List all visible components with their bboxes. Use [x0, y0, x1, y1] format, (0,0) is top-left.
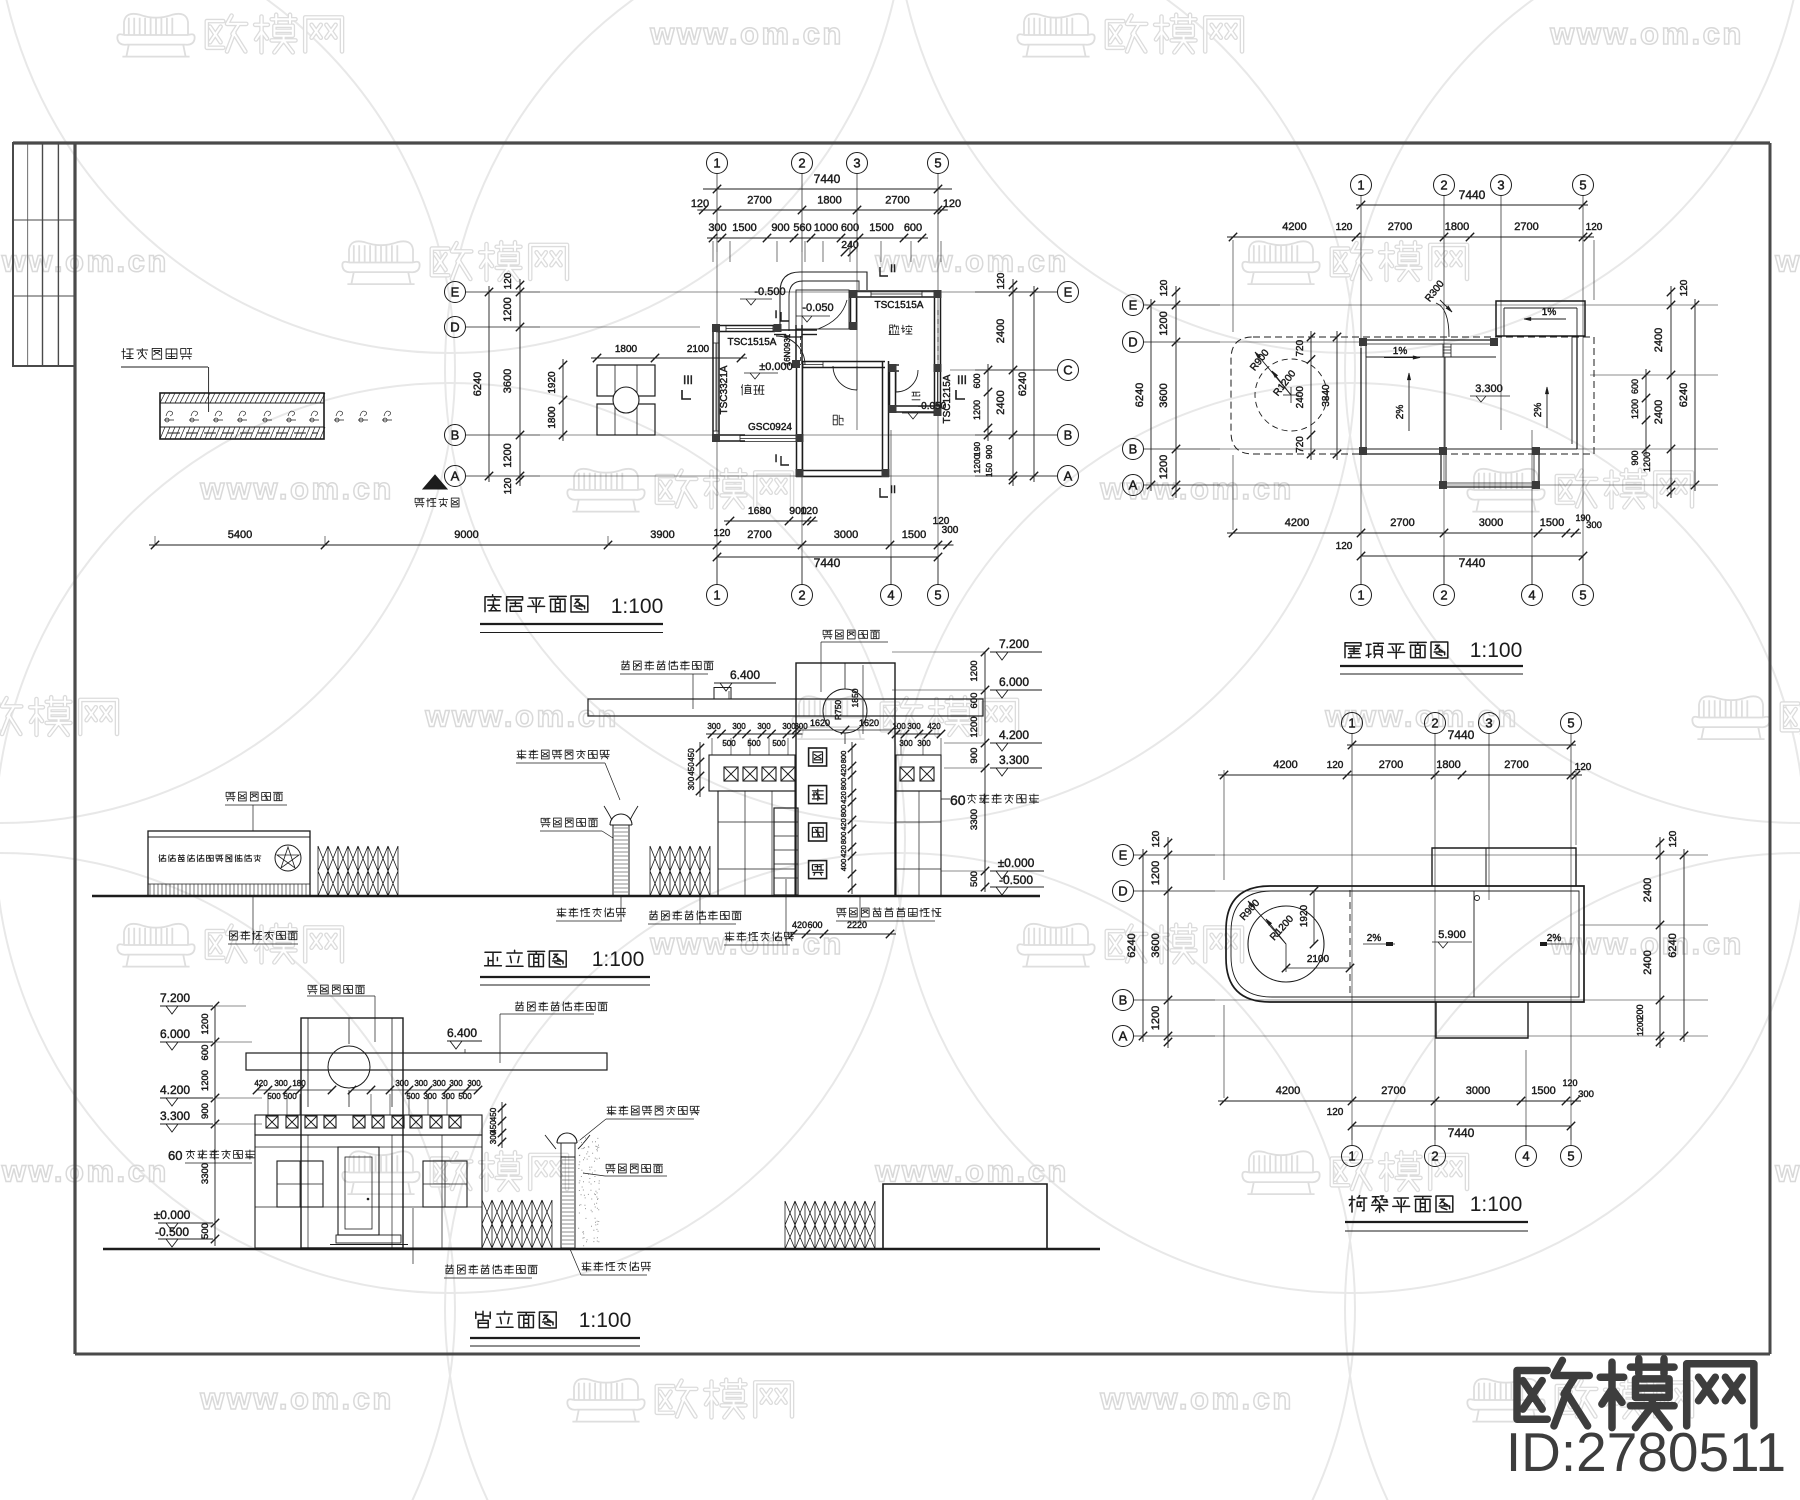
tower top label — [823, 630, 880, 639]
svg-text:1200: 1200 — [1150, 861, 1162, 885]
rear right building block — [883, 1184, 1047, 1249]
roof canopy band — [1366, 339, 1496, 341]
svg-text:1500: 1500 — [869, 222, 893, 234]
svg-text:120: 120 — [1327, 1107, 1344, 1118]
svg-text:500: 500 — [406, 1092, 420, 1101]
floor plan bottom dims — [724, 520, 818, 522]
frame plan left bubbles — [1113, 845, 1134, 866]
svg-text:E: E — [1129, 298, 1138, 313]
svg-text:100: 100 — [892, 722, 906, 731]
svg-text:1800: 1800 — [1445, 221, 1469, 233]
svg-text:300: 300 — [794, 722, 808, 731]
svg-text:400: 400 — [839, 859, 848, 872]
svg-text:II: II — [890, 263, 896, 275]
svg-text:www.om.cn: www.om.cn — [199, 1381, 394, 1416]
svg-text:5: 5 — [1579, 178, 1586, 193]
svg-text:2700: 2700 — [1390, 517, 1414, 529]
svg-text:800: 800 — [839, 778, 848, 791]
svg-text:GSC0924: GSC0924 — [748, 422, 792, 433]
svg-text:1200: 1200 — [1150, 1006, 1162, 1030]
canopy slab front — [588, 699, 983, 716]
svg-text:2220: 2220 — [847, 920, 867, 930]
right dim stack front — [984, 652, 986, 892]
svg-text:120: 120 — [1336, 222, 1353, 233]
frame plan top extension — [1432, 848, 1576, 886]
svg-text:300: 300 — [757, 722, 771, 731]
duty top-right wall w/ notch — [774, 329, 817, 331]
svg-text:±0.000: ±0.000 — [759, 361, 793, 373]
svg-text:4: 4 — [887, 588, 894, 603]
svg-text:1200: 1200 — [502, 297, 514, 321]
svg-text:900: 900 — [771, 222, 789, 234]
svg-text:3.300: 3.300 — [999, 753, 1029, 767]
svg-text:450: 450 — [687, 748, 696, 762]
svg-text:D: D — [450, 320, 459, 335]
svg-text:6.400: 6.400 — [447, 1026, 477, 1040]
svg-text:500: 500 — [722, 739, 736, 748]
svg-text:1200: 1200 — [969, 716, 980, 737]
svg-text:7440: 7440 — [1448, 1126, 1475, 1140]
rear canopy slab — [246, 1053, 607, 1070]
svg-text:5: 5 — [1579, 588, 1586, 603]
svg-text:1800: 1800 — [615, 344, 638, 355]
svg-text:www.om.cn: www.om.cn — [0, 244, 169, 279]
svg-text:500: 500 — [200, 1223, 211, 1239]
interior door arcs — [833, 366, 857, 390]
svg-text:1500: 1500 — [732, 222, 756, 234]
svg-text:1800: 1800 — [817, 195, 841, 207]
svg-text:9000: 9000 — [454, 529, 478, 541]
svg-text:420: 420 — [792, 920, 807, 930]
svg-text:www.om.cn: www.om.cn — [0, 1154, 169, 1189]
roof right vdims — [1670, 286, 1672, 498]
svg-text:D: D — [1118, 884, 1127, 899]
floor plan bottom bubbles — [707, 585, 728, 606]
svg-text:1200: 1200 — [1158, 311, 1170, 335]
svg-text:www.om.cn: www.om.cn — [199, 471, 394, 506]
svg-text:±0.000: ±0.000 — [154, 1208, 191, 1222]
sign wall labels — [226, 792, 283, 801]
window band right front — [896, 755, 941, 791]
svg-text:2700: 2700 — [885, 195, 909, 207]
svg-text:1: 1 — [1348, 1149, 1355, 1164]
svg-text:3.300: 3.300 — [160, 1109, 190, 1123]
svg-text:2100: 2100 — [687, 344, 710, 355]
walls below left — [718, 791, 795, 896]
bottom dim chain front — [787, 933, 896, 935]
floor plan right vdims — [1012, 279, 1014, 486]
svg-text:-0.500: -0.500 — [155, 1225, 189, 1239]
svg-text:1200: 1200 — [1158, 455, 1170, 479]
svg-text:2700: 2700 — [1379, 759, 1403, 771]
svg-text:A: A — [1064, 469, 1073, 484]
svg-text:1920: 1920 — [547, 371, 558, 394]
svg-text:120: 120 — [1336, 541, 1353, 552]
svg-text:300: 300 — [899, 739, 913, 748]
svg-text:1%: 1% — [1542, 307, 1557, 318]
svg-text:120: 120 — [1159, 279, 1170, 296]
title front elevation — [485, 950, 567, 967]
roof bottom extension — [1440, 454, 1442, 487]
svg-text:2%: 2% — [1367, 933, 1382, 944]
svg-text:150: 150 — [984, 463, 994, 477]
svg-text:1200: 1200 — [969, 660, 980, 681]
frame bottom dims — [1218, 1100, 1581, 1102]
big logo 欧模网 — [1517, 1359, 1754, 1428]
svg-text:1: 1 — [1348, 716, 1355, 731]
svg-text:120: 120 — [1562, 1078, 1577, 1088]
rear pole labels — [607, 1106, 699, 1115]
pole labels — [517, 750, 609, 759]
accordion gate mid — [650, 846, 710, 896]
svg-text:1200: 1200 — [1630, 399, 1640, 419]
svg-text:120: 120 — [1151, 830, 1162, 847]
svg-text:120: 120 — [1575, 762, 1592, 773]
svg-text:6240: 6240 — [1134, 383, 1146, 407]
svg-text:3.300: 3.300 — [1475, 383, 1503, 395]
svg-text:300: 300 — [432, 1079, 446, 1088]
svg-text:www.om.cn: www.om.cn — [1774, 244, 1800, 279]
svg-text:3: 3 — [853, 156, 860, 171]
svg-text:III: III — [683, 373, 693, 387]
svg-text:900: 900 — [1630, 450, 1640, 465]
frame right vdims — [1659, 837, 1661, 1048]
ground floor plan: grid bubbles top — [707, 153, 728, 174]
title rear elevation — [476, 1311, 556, 1328]
floor plan right grid bubbles E C B A — [1058, 282, 1079, 303]
svg-text:2400: 2400 — [1642, 950, 1654, 974]
duty room windows — [712, 343, 714, 431]
svg-text:200: 200 — [1635, 1004, 1645, 1019]
svg-text:2700: 2700 — [1514, 221, 1538, 233]
title table top-left — [13, 143, 75, 366]
svg-text:7.200: 7.200 — [999, 637, 1029, 651]
frame plan bottom extension — [1436, 1002, 1528, 1038]
svg-text:2400: 2400 — [995, 390, 1007, 414]
bedroom walls — [802, 361, 885, 363]
svg-text:7440: 7440 — [1459, 556, 1486, 570]
svg-text:2700: 2700 — [1381, 1085, 1405, 1097]
svg-text:2400: 2400 — [995, 319, 1007, 343]
svg-text:I: I — [774, 309, 777, 321]
svg-text:2400: 2400 — [1642, 878, 1654, 902]
svg-text:E: E — [1064, 285, 1073, 300]
rear left dim stack — [214, 1006, 216, 1246]
extension lines floor plan bottom site dim — [154, 536, 156, 545]
entrance canopy outer — [780, 272, 867, 331]
frame plan body rounded — [1226, 886, 1584, 1002]
svg-text:1:100: 1:100 — [592, 948, 645, 971]
title: ground floor plan — [485, 595, 588, 613]
svg-text:2100: 2100 — [1307, 954, 1330, 965]
svg-text:5: 5 — [934, 588, 941, 603]
svg-text:3000: 3000 — [1466, 1085, 1490, 1097]
svg-text:500: 500 — [267, 1092, 281, 1101]
svg-text:A: A — [1129, 478, 1138, 493]
svg-text:2700: 2700 — [1388, 221, 1412, 233]
roof columns — [1359, 338, 1367, 346]
svg-text:1: 1 — [713, 156, 720, 171]
accordion gate left — [318, 846, 398, 896]
svg-text:420: 420 — [839, 818, 848, 831]
svg-text:TSC3321A: TSC3321A — [719, 365, 730, 414]
svg-text:4.200: 4.200 — [999, 728, 1029, 742]
canopy label — [621, 661, 713, 670]
svg-text:120: 120 — [503, 272, 514, 289]
svg-text:1:100: 1:100 — [611, 595, 664, 618]
svg-text:1680: 1680 — [748, 505, 772, 517]
svg-text:3840: 3840 — [1321, 384, 1332, 407]
svg-text:2400: 2400 — [1295, 386, 1306, 409]
svg-text:D: D — [1128, 335, 1137, 350]
svg-text:1800: 1800 — [1436, 759, 1460, 771]
car entrance — [423, 475, 447, 489]
svg-text:2: 2 — [798, 156, 805, 171]
svg-text:5.900: 5.900 — [1438, 929, 1466, 941]
svg-text:1000: 1000 — [814, 222, 838, 234]
svg-text:300: 300 — [1586, 520, 1602, 531]
svg-text:B: B — [1064, 428, 1073, 443]
rear light pole — [557, 1133, 577, 1143]
svg-text:7440: 7440 — [814, 556, 841, 570]
roof plan extensions — [1232, 240, 1234, 332]
svg-text:2400: 2400 — [1653, 328, 1665, 352]
roof bottom bubbles — [1351, 585, 1372, 606]
frame plan circle — [1248, 906, 1324, 982]
svg-text:2700: 2700 — [747, 195, 771, 207]
floor plan vertical grid lines — [716, 252, 718, 585]
svg-text:3: 3 — [1485, 716, 1492, 731]
svg-text:1850: 1850 — [850, 688, 860, 707]
svg-text:6240: 6240 — [1126, 933, 1138, 957]
svg-text:1200: 1200 — [1636, 1018, 1645, 1036]
svg-text:www.om.cn: www.om.cn — [1549, 16, 1744, 51]
roof vertical dim chains 720 2400 720 3840 — [1310, 331, 1312, 460]
svg-text:300: 300 — [732, 722, 746, 731]
front elevation level extension lines — [944, 742, 985, 744]
svg-text:A: A — [1119, 1029, 1128, 1044]
svg-text:3300: 3300 — [969, 809, 980, 830]
svg-text:4: 4 — [1522, 1149, 1529, 1164]
svg-text:I: I — [774, 453, 777, 465]
svg-text:-0.500: -0.500 — [999, 873, 1033, 887]
svg-text:3900: 3900 — [650, 529, 674, 541]
svg-text:800: 800 — [839, 751, 848, 764]
svg-text:2400: 2400 — [1653, 400, 1665, 424]
svg-text:www.om.cn: www.om.cn — [649, 926, 844, 961]
plan black columns — [712, 324, 720, 332]
svg-text:600: 600 — [1630, 379, 1640, 394]
svg-text:III: III — [957, 373, 967, 387]
svg-text:±0.000: ±0.000 — [998, 856, 1035, 870]
rear building tower — [301, 1018, 403, 1248]
svg-text:2: 2 — [1440, 178, 1447, 193]
svg-text:300: 300 — [708, 222, 726, 234]
extension lines floor plan top — [712, 241, 714, 262]
svg-text:2%: 2% — [1395, 405, 1406, 420]
svg-text:300: 300 — [687, 776, 696, 790]
floor plan horizontal grid lines — [540, 291, 1057, 293]
svg-text:1: 1 — [713, 588, 720, 603]
monitor room window — [871, 290, 922, 292]
svg-text:60: 60 — [950, 792, 966, 808]
entrance porch — [796, 290, 849, 329]
frame plan left vdims — [1167, 837, 1169, 1048]
floor plan walls: duty room — [712, 325, 714, 441]
svg-text:B: B — [1129, 442, 1138, 457]
svg-text:600: 600 — [969, 693, 980, 709]
roof dashed outline — [1231, 337, 1594, 454]
svg-text:1500: 1500 — [1540, 517, 1564, 529]
svg-text:5: 5 — [1567, 1149, 1574, 1164]
svg-text:TSC1515A: TSC1515A — [728, 337, 777, 348]
signboard boxes — [809, 748, 827, 766]
svg-text:120: 120 — [503, 477, 514, 494]
roof plan left vdims — [1175, 286, 1177, 498]
glass door front — [774, 808, 798, 895]
svg-text:1%: 1% — [1393, 346, 1408, 357]
electric retractable gate label — [122, 348, 192, 359]
svg-text:II: II — [890, 484, 896, 496]
svg-text:300: 300 — [1578, 1089, 1594, 1100]
svg-text:6.000: 6.000 — [999, 675, 1029, 689]
svg-text:120: 120 — [714, 528, 731, 539]
svg-text:300: 300 — [907, 722, 921, 731]
svg-text:120: 120 — [933, 516, 950, 527]
svg-text:190: 190 — [972, 442, 982, 456]
svg-text:500: 500 — [458, 1092, 472, 1101]
svg-text:3600: 3600 — [1150, 933, 1162, 957]
svg-text:E: E — [1119, 848, 1128, 863]
svg-text:7440: 7440 — [814, 172, 841, 186]
svg-text:600: 600 — [200, 1045, 211, 1061]
svg-text:www.om.cn: www.om.cn — [1099, 1381, 1294, 1416]
svg-text:7440: 7440 — [1459, 188, 1486, 202]
svg-text:600: 600 — [841, 222, 859, 234]
rear elevation level extensions — [215, 1005, 246, 1007]
svg-text:1200: 1200 — [972, 400, 982, 420]
signboard vdim chain — [851, 742, 853, 894]
svg-text:1800: 1800 — [547, 406, 558, 429]
bottom labels front — [557, 908, 625, 917]
title frame plan — [1349, 1196, 1453, 1213]
svg-text:800: 800 — [839, 832, 848, 845]
svg-text:www.om.cn: www.om.cn — [649, 16, 844, 51]
svg-text:1: 1 — [1357, 178, 1364, 193]
svg-text:6240: 6240 — [1678, 383, 1690, 407]
svg-text:450: 450 — [489, 1107, 498, 1121]
svg-text:4: 4 — [1528, 588, 1535, 603]
svg-text:1620: 1620 — [810, 718, 830, 728]
frame bottom bubbles — [1342, 1146, 1363, 1167]
walls below right — [896, 791, 941, 896]
svg-text:www.om.cn: www.om.cn — [1774, 1154, 1800, 1189]
sign wall — [148, 831, 310, 896]
svg-text:1200: 1200 — [502, 443, 514, 467]
svg-text:B: B — [451, 428, 460, 443]
svg-text:1500: 1500 — [902, 529, 926, 541]
svg-text:120: 120 — [800, 505, 818, 517]
svg-text:2700: 2700 — [747, 529, 771, 541]
svg-text:A: A — [451, 469, 460, 484]
svg-text:7440: 7440 — [1448, 728, 1475, 742]
svg-text:www.om.cn: www.om.cn — [874, 244, 1069, 279]
svg-text:1:100: 1:100 — [1470, 639, 1523, 662]
svg-text:300: 300 — [707, 722, 721, 731]
rear lower walls — [255, 1135, 482, 1248]
svg-text:300: 300 — [395, 1079, 409, 1088]
svg-text:-0.050: -0.050 — [802, 302, 833, 314]
roof bottom dims — [1227, 532, 1581, 534]
roof plan left bubbles — [1123, 295, 1144, 316]
svg-text:420: 420 — [839, 764, 848, 777]
svg-text:6240: 6240 — [472, 372, 484, 396]
svg-text:3: 3 — [1497, 178, 1504, 193]
svg-text:300: 300 — [449, 1079, 463, 1088]
svg-text:4200: 4200 — [1273, 759, 1297, 771]
window band dims front — [706, 733, 803, 735]
svg-text:120: 120 — [1586, 222, 1603, 233]
roof plan grid bubbles top — [1351, 175, 1372, 196]
frame plan inner lines — [1349, 890, 1351, 998]
rear ground line — [103, 1248, 1100, 1250]
toilet window right — [934, 370, 936, 404]
svg-text:120: 120 — [1668, 830, 1679, 847]
rear accordions — [482, 1200, 552, 1248]
svg-text:800: 800 — [839, 805, 848, 818]
rear bottom labels — [445, 1265, 537, 1274]
svg-text:1200: 1200 — [972, 454, 982, 473]
svg-text:900: 900 — [984, 445, 994, 459]
svg-text:6.400: 6.400 — [730, 668, 760, 682]
front elevation ground line — [92, 895, 1040, 897]
gate post detail dims — [562, 359, 564, 441]
svg-text:7.200: 7.200 — [160, 991, 190, 1005]
svg-text:420: 420 — [839, 791, 848, 804]
svg-text:500: 500 — [747, 739, 761, 748]
svg-text:900: 900 — [969, 748, 980, 764]
svg-text:300: 300 — [489, 1130, 498, 1144]
svg-text:3000: 3000 — [834, 529, 858, 541]
svg-text:2700: 2700 — [1504, 759, 1528, 771]
svg-text:4200: 4200 — [1285, 517, 1309, 529]
svg-text:4.200: 4.200 — [160, 1083, 190, 1097]
svg-text:120: 120 — [996, 272, 1007, 289]
svg-text:600: 600 — [904, 222, 922, 234]
svg-text:5: 5 — [1567, 716, 1574, 731]
svg-text:TSC1215A: TSC1215A — [942, 374, 953, 423]
svg-text:500: 500 — [969, 871, 980, 887]
svg-text:1:100: 1:100 — [579, 1309, 632, 1332]
svg-text:ID:2780511: ID:2780511 — [1506, 1421, 1786, 1483]
svg-text:120: 120 — [691, 198, 709, 210]
rear door — [338, 1147, 379, 1235]
svg-text:2: 2 — [798, 588, 805, 603]
svg-text:3600: 3600 — [1158, 383, 1170, 407]
svg-text:300: 300 — [917, 739, 931, 748]
svg-text:900: 900 — [200, 1103, 211, 1119]
svg-text:6.000: 6.000 — [160, 1027, 190, 1041]
entrance door arc duty — [776, 336, 805, 365]
svg-text:2%: 2% — [1533, 403, 1544, 418]
svg-text:2: 2 — [1431, 716, 1438, 731]
svg-text:1200: 1200 — [200, 1013, 211, 1034]
roof dashed circle R900 — [1255, 359, 1327, 431]
svg-text:6240: 6240 — [1667, 933, 1679, 957]
svg-text:1200: 1200 — [200, 1070, 211, 1091]
svg-text:B: B — [1119, 993, 1128, 1008]
frame plan top bubbles — [1342, 713, 1363, 734]
